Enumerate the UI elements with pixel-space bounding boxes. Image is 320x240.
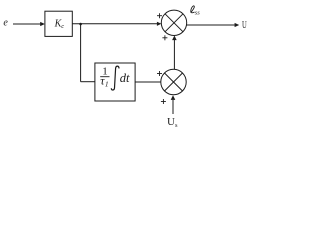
plus sign at S2 left input [157, 71, 162, 76]
plus sign at S2 bottom input [161, 99, 166, 104]
wire: S2 up to S1 with arrowhead [172, 36, 177, 70]
wire: branch down and into integrator [81, 24, 95, 82]
node e (error input label) [3, 18, 8, 29]
wire: integrator output to summing junction S2 [135, 81, 161, 83]
plus sign at S1 bottom input [162, 35, 167, 40]
summing junction S1 (circle with X) [161, 10, 186, 35]
svg-text:Us: Us [167, 116, 178, 129]
wire: Kc output to summing junction S1 [72, 22, 161, 26]
label 1/tau_I integral dt [100, 65, 130, 90]
svg-text:dt: dt [120, 71, 130, 85]
summing junction S2 (circle with X) [161, 69, 186, 94]
node U (controller output label) [242, 19, 247, 31]
svg-text:ss: ss [195, 10, 201, 17]
plus sign at S1 left input [157, 13, 162, 18]
integrator block [95, 63, 135, 101]
label e_ss at S1 output [191, 6, 200, 17]
svg-text:e: e [3, 18, 8, 29]
wire: Us up into S2 with arrowhead [171, 95, 176, 114]
wire: S1 output to U with arrowhead [187, 23, 240, 27]
node Us (bias input label) [167, 116, 178, 129]
gain block Kc [45, 11, 72, 36]
svg-text:U: U [242, 19, 247, 31]
label Kc [54, 19, 65, 30]
wire: e to Kc block with arrowhead [13, 22, 45, 26]
junction dot at branch point [79, 23, 82, 26]
